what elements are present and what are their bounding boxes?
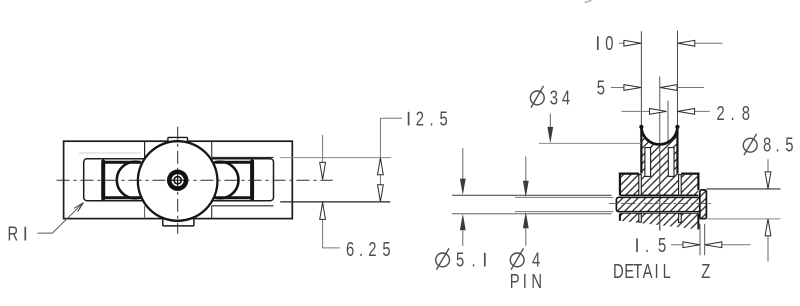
svg-text:5: 5 bbox=[382, 238, 390, 261]
faint tangent line bbox=[79, 152, 141, 154]
groove column hatch bbox=[641, 127, 677, 174]
dim 2.8 bbox=[622, 102, 751, 125]
dim 12.5 bbox=[280, 107, 448, 202]
svg-text:T: T bbox=[633, 260, 642, 283]
svg-text:2: 2 bbox=[416, 107, 424, 130]
slot inner rounded rect bbox=[84, 159, 274, 201]
white slot s2 bbox=[668, 148, 674, 177]
bore bottom line bbox=[620, 213, 699, 215]
white slot s4 bbox=[679, 175, 682, 196]
svg-text:5: 5 bbox=[658, 234, 666, 257]
dim 5 bbox=[597, 76, 704, 99]
svg-text:.: . bbox=[430, 107, 434, 130]
svg-text:R: R bbox=[8, 222, 19, 245]
step edge left top bbox=[144, 141, 146, 157]
bottom hub part bbox=[620, 214, 699, 230]
flange block bbox=[620, 174, 699, 196]
dim 6.25 bbox=[320, 135, 391, 261]
svg-text:Z: Z bbox=[701, 260, 710, 283]
svg-text:2: 2 bbox=[717, 102, 725, 125]
svg-text:3: 3 bbox=[550, 86, 558, 109]
bracket outer body bbox=[64, 141, 293, 218]
step edge right top bbox=[212, 141, 274, 157]
white slot s1 bbox=[645, 148, 651, 177]
svg-text:D: D bbox=[613, 260, 624, 283]
extension line right 677 bbox=[676, 31, 678, 126]
step edge right bottom bbox=[212, 206, 274, 219]
svg-text:6: 6 bbox=[346, 238, 354, 261]
pulley circle bbox=[138, 141, 218, 221]
svg-text:5: 5 bbox=[440, 107, 448, 130]
top clamp tab bbox=[168, 137, 188, 141]
pin head cap bbox=[700, 190, 707, 219]
dim D4 PIN bbox=[510, 156, 542, 292]
dim 10 bbox=[598, 32, 723, 55]
pin extension lines bbox=[452, 194, 612, 196]
extension line 668 bbox=[667, 101, 669, 148]
svg-text:4: 4 bbox=[532, 248, 540, 271]
svg-text:.: . bbox=[731, 102, 735, 125]
centerline vertical 660 bbox=[659, 77, 661, 231]
svg-text:5: 5 bbox=[597, 76, 605, 99]
svg-text:5: 5 bbox=[785, 133, 793, 156]
white slot s6 bbox=[679, 214, 682, 223]
svg-text:0: 0 bbox=[605, 32, 613, 55]
horizontal centerline bbox=[57, 179, 333, 181]
R1 leader bbox=[8, 203, 84, 245]
bore top line bbox=[620, 194, 699, 196]
dim D34 bbox=[530, 86, 641, 144]
left groove flange bars bbox=[103, 162, 140, 199]
dim D8.5 bbox=[707, 133, 794, 261]
vertical centerline bbox=[177, 127, 179, 234]
bottom clamp tab bbox=[163, 219, 194, 226]
svg-text:8: 8 bbox=[742, 102, 750, 125]
step edge left bottom bbox=[144, 206, 146, 219]
svg-text:A: A bbox=[643, 260, 653, 283]
column walls bbox=[641, 127, 677, 174]
svg-text:N: N bbox=[531, 270, 542, 293]
pin bbox=[616, 197, 701, 211]
svg-text:I: I bbox=[523, 270, 527, 293]
pin axis centerline bbox=[609, 202, 712, 204]
svg-text:P: P bbox=[510, 270, 520, 293]
svg-text:.: . bbox=[472, 248, 476, 271]
dim D5.1 bbox=[436, 148, 485, 271]
svg-text:I: I bbox=[655, 260, 659, 283]
extension line left 641 bbox=[640, 31, 642, 125]
svg-text:4: 4 bbox=[562, 86, 570, 109]
hub bbox=[167, 170, 188, 191]
dim 1.5 bbox=[637, 224, 751, 257]
svg-text:8: 8 bbox=[763, 133, 771, 156]
svg-text:.: . bbox=[645, 234, 649, 257]
svg-text:.: . bbox=[776, 133, 780, 156]
right groove flange bars bbox=[216, 162, 253, 199]
svg-text:.: . bbox=[359, 238, 363, 261]
label DETAIL Z bbox=[613, 260, 711, 283]
white slot s5 bbox=[639, 214, 642, 223]
white slot s3 bbox=[639, 175, 642, 196]
svg-text:2: 2 bbox=[368, 238, 376, 261]
stray mark top bbox=[585, 1, 592, 3]
centerline over section bbox=[659, 145, 661, 230]
svg-text:5: 5 bbox=[456, 248, 464, 271]
svg-text:L: L bbox=[663, 260, 671, 283]
groove arc bbox=[641, 127, 677, 144]
